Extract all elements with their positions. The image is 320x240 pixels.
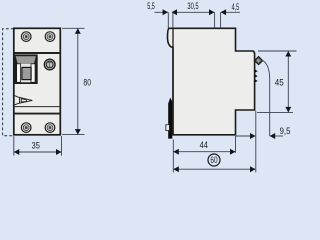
- svg-text:5,5: 5,5: [147, 1, 155, 12]
- svg-text:44: 44: [200, 140, 208, 151]
- label area divider: [14, 106, 61, 108]
- svg-text:9,5: 9,5: [280, 126, 291, 137]
- inner back wall line: [172, 29, 174, 135]
- bottom terminal divider: [14, 113, 61, 115]
- side body outline: [168, 28, 255, 135]
- DIN rail clip (black): [168, 98, 172, 139]
- terminal screw top-right: [45, 32, 55, 42]
- svg-text:30,5: 30,5: [187, 1, 198, 12]
- hidden rear outline (dashed): [3, 29, 14, 136]
- test button T: [44, 59, 55, 70]
- dimension 45 (right): [257, 51, 297, 112]
- dimension 9,5: [236, 111, 283, 173]
- terminal screw bottom-right: [45, 123, 55, 133]
- svg-text:80: 80: [83, 77, 91, 88]
- svg-text:T: T: [48, 63, 52, 69]
- top terminal divider: [14, 52, 61, 54]
- toggle lever (side): [254, 56, 262, 64]
- terminal screw bottom-left: [21, 123, 31, 133]
- test flag symbol: [13, 95, 32, 106]
- dimension (60): [174, 168, 256, 170]
- dimension 80 (front height): [62, 28, 85, 134]
- svg-text:45: 45: [275, 77, 284, 88]
- dimension 35 (front width): [14, 136, 62, 156]
- lever hinge hatching: [255, 69, 258, 82]
- svg-text:60: 60: [210, 155, 217, 165]
- dimension 44: [173, 136, 235, 173]
- svg-text:4,5: 4,5: [232, 2, 240, 13]
- terminal screw top-left: [21, 32, 31, 42]
- clip pull tab: [166, 125, 170, 131]
- front protrusion arc: [262, 60, 270, 136]
- device body front view: [14, 28, 61, 135]
- top dimensions 5,5 / 30,5 / 4,5: [155, 12, 241, 28]
- svg-text:35: 35: [32, 140, 40, 151]
- toggle switch assembly (front): [14, 54, 38, 84]
